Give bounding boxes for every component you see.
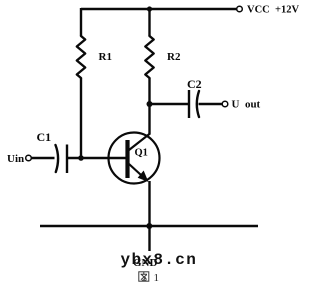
wire collector (R2 to transistor) bbox=[148, 78, 150, 135]
junction collector/C2 branch bbox=[147, 101, 153, 107]
resistor R1 bbox=[77, 36, 85, 78]
capacitor C1 bbox=[56, 145, 68, 174]
watermark ybx8.cn bbox=[121, 251, 198, 269]
svg-text:Q1: Q1 bbox=[135, 148, 148, 159]
wire top supply rail bbox=[81, 8, 238, 10]
label Q1 bbox=[135, 148, 148, 159]
wire R1 bottom (R1 to base node) bbox=[80, 78, 82, 158]
junction emitter/ground bbox=[146, 223, 152, 229]
svg-text:VCC +12V: VCC +12V bbox=[247, 5, 299, 16]
svg-text:ybx8.cn: ybx8.cn bbox=[121, 251, 198, 269]
label C1 bbox=[37, 130, 52, 144]
svg-text:U out: U out bbox=[232, 99, 261, 111]
label Uin bbox=[7, 153, 24, 165]
svg-text:R1: R1 bbox=[99, 51, 112, 63]
wire R2 top (rail to R2) bbox=[148, 8, 150, 36]
svg-text:Uin: Uin bbox=[7, 153, 24, 165]
svg-text:C2: C2 bbox=[187, 77, 202, 91]
label GND bbox=[133, 257, 158, 269]
resistor R2 bbox=[145, 36, 153, 78]
junction rail/R2 bbox=[147, 6, 152, 11]
label VCC +12V bbox=[247, 5, 299, 16]
wire ground rail bbox=[40, 225, 258, 227]
svg-text:C1: C1 bbox=[37, 130, 52, 144]
label R2 bbox=[167, 51, 181, 63]
terminal U out bbox=[222, 101, 228, 107]
label R1 bbox=[99, 51, 112, 63]
wire base (C1 to transistor) bbox=[67, 157, 126, 159]
wire C2 left bbox=[150, 103, 190, 105]
capacitor C2 bbox=[189, 90, 199, 118]
label U out bbox=[232, 99, 261, 111]
wire C2 right bbox=[199, 103, 223, 105]
wire Uin to C1 bbox=[32, 157, 55, 159]
terminal Uin bbox=[26, 155, 32, 161]
junction R1/base wire bbox=[78, 155, 84, 161]
wire emitter (transistor to ground) bbox=[148, 181, 150, 251]
transistor Q1 bbox=[109, 133, 160, 184]
svg-text:1: 1 bbox=[154, 272, 160, 284]
label C2 bbox=[187, 77, 202, 91]
label figure caption 图 1 bbox=[139, 272, 149, 281]
wire R1 top (rail to R1) bbox=[80, 8, 82, 36]
terminal VCC bbox=[237, 6, 243, 12]
svg-text:R2: R2 bbox=[167, 51, 181, 63]
